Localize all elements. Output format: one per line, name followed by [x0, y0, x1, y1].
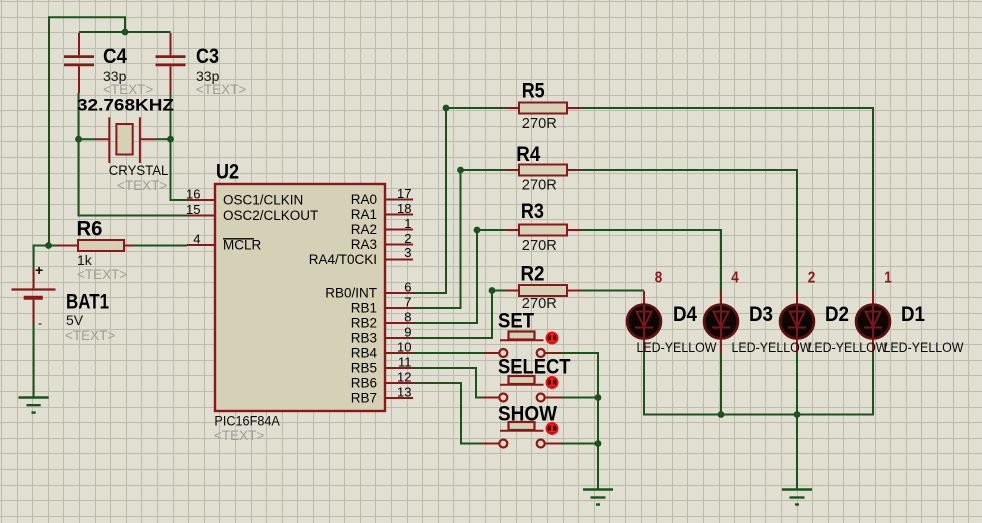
- svg-text:9: 9: [404, 325, 411, 340]
- pin 2 RA3 stub: [385, 244, 413, 246]
- pin 11 RB5 stub: [385, 367, 413, 369]
- svg-text:RA0: RA0: [351, 192, 377, 207]
- wire RB6 to SHOW button: [413, 383, 483, 444]
- node rail/SHOW: [595, 440, 602, 447]
- node crystal right: [167, 136, 174, 143]
- node battery/R6 junction: [45, 242, 52, 249]
- svg-text:1: 1: [884, 270, 892, 287]
- svg-text:RA2: RA2: [351, 222, 377, 237]
- svg-text:PIC16F84A: PIC16F84A: [214, 414, 280, 429]
- svg-text:RB0/INT: RB0/INT: [325, 286, 377, 301]
- wire SHOW right to rail: [561, 443, 598, 445]
- node bus/D2: [794, 411, 801, 418]
- pin 18 RA1 stub: [385, 214, 413, 216]
- resistor R2: [506, 285, 581, 296]
- pin 9 RB3 stub: [385, 337, 413, 339]
- svg-text:-: -: [38, 316, 42, 330]
- svg-text:7: 7: [404, 295, 411, 310]
- pin 1 RA2 stub: [385, 229, 413, 231]
- pin 15 OSC2 stub: [187, 215, 215, 217]
- LED D1: [856, 291, 890, 353]
- svg-text:270R: 270R: [522, 177, 557, 194]
- svg-text:D1: D1: [901, 303, 925, 326]
- wire C4 column down to OSC2 pin: [79, 93, 188, 216]
- svg-text:<TEXT>: <TEXT>: [65, 328, 115, 343]
- wire C3 column down to OSC1 pin: [171, 93, 188, 200]
- svg-text:R4: R4: [516, 143, 540, 166]
- svg-text:LED-YELLOW: LED-YELLOW: [637, 340, 717, 355]
- pin 17 RA0 stub: [385, 199, 413, 201]
- svg-text:<TEXT>: <TEXT>: [77, 267, 127, 282]
- svg-text:R6: R6: [77, 218, 103, 241]
- svg-text:C3: C3: [196, 45, 219, 68]
- pin 3 RA4 stub: [385, 259, 413, 261]
- node tee above caps: [122, 29, 129, 36]
- wire RB5 to SELECT button: [413, 368, 483, 398]
- wire SELECT right to rail: [561, 397, 598, 399]
- svg-text:OSC1/CLKIN: OSC1/CLKIN: [223, 193, 303, 208]
- svg-text:RA3: RA3: [351, 237, 377, 252]
- svg-text:8: 8: [404, 310, 411, 325]
- wire R4 to D2 column: [581, 170, 797, 291]
- svg-text:12: 12: [397, 370, 411, 385]
- wire battery to R6 node: [34, 246, 49, 269]
- resistor R5: [506, 103, 581, 114]
- wire RB0 to R5: [413, 108, 506, 293]
- LED cathode bus: [644, 353, 873, 415]
- svg-text:16: 16: [186, 186, 200, 201]
- svg-text:D2: D2: [825, 303, 849, 326]
- svg-text:U2: U2: [216, 161, 239, 184]
- svg-text:<TEXT>: <TEXT>: [214, 428, 264, 443]
- LED D2: [780, 291, 814, 353]
- svg-text:OSC2/CLKOUT: OSC2/CLKOUT: [223, 208, 318, 223]
- wire RB3 to R2: [413, 291, 506, 339]
- pin 12 RB6 stub: [385, 382, 413, 384]
- pin 10 RB4 stub: [385, 352, 413, 354]
- wire crystal left lead stub: [79, 138, 96, 140]
- ground (battery): [19, 398, 49, 413]
- svg-text:18: 18: [397, 201, 411, 216]
- svg-text:2: 2: [404, 231, 411, 246]
- svg-text:RB1: RB1: [351, 301, 377, 316]
- svg-text:RB7: RB7: [351, 391, 377, 406]
- svg-text:13: 13: [397, 385, 411, 400]
- svg-text:R5: R5: [522, 80, 545, 103]
- svg-text:2: 2: [808, 270, 816, 287]
- svg-text:11: 11: [398, 355, 412, 370]
- svg-text:10: 10: [397, 340, 411, 355]
- svg-text:MCLR: MCLR: [223, 238, 262, 253]
- wire RB1 to R4: [413, 170, 506, 308]
- capacitor C3: [156, 33, 186, 93]
- svg-text:3: 3: [404, 245, 411, 260]
- svg-text:SHOW: SHOW: [498, 403, 557, 426]
- pin 8 RB2 stub: [385, 322, 413, 324]
- node rail/SELECT: [595, 394, 602, 401]
- wire RB2 to R3: [413, 230, 506, 323]
- svg-text:RB3: RB3: [351, 331, 377, 346]
- LED D4: [627, 291, 661, 353]
- wire D2 cathode drop to ground: [796, 353, 798, 490]
- svg-text:1k: 1k: [77, 252, 93, 268]
- svg-text:RA1: RA1: [351, 207, 377, 222]
- svg-text:D3: D3: [749, 303, 773, 326]
- wire D3 cathode drop: [720, 353, 722, 415]
- LED D3: [704, 291, 738, 353]
- svg-text:270R: 270R: [522, 115, 557, 132]
- svg-text:5V: 5V: [66, 312, 84, 328]
- wire SET right to ground rail: [561, 353, 598, 490]
- svg-text:SELECT: SELECT: [498, 356, 571, 379]
- svg-text:4: 4: [193, 231, 200, 246]
- ground (buttons): [583, 490, 613, 505]
- svg-text:<TEXT>: <TEXT>: [196, 82, 246, 97]
- wire R6 row segments: [49, 245, 188, 247]
- pin 16 OSC1 stub: [187, 199, 215, 201]
- wire R5 to D1 column: [581, 108, 873, 291]
- node RB1/R4: [457, 167, 464, 174]
- node bus/D3: [718, 411, 725, 418]
- button SELECT: [483, 376, 562, 402]
- node RB2/R3: [474, 227, 481, 234]
- svg-text:4: 4: [731, 270, 739, 287]
- battery BAT1: [12, 262, 56, 330]
- pin 6 RB0 stub: [385, 292, 413, 294]
- svg-text:17: 17: [397, 186, 411, 201]
- svg-text:R2: R2: [521, 263, 545, 286]
- wire R2 to D4 column: [581, 290, 644, 292]
- node RB3/R2: [489, 287, 496, 294]
- pin 4 MCLR stub: [187, 244, 215, 246]
- resistor R3: [506, 225, 581, 236]
- capacitor C4: [64, 33, 94, 93]
- button SHOW: [483, 422, 562, 448]
- svg-text:RB2: RB2: [351, 316, 377, 331]
- svg-text:CRYSTAL: CRYSTAL: [109, 163, 169, 178]
- wire left rail from battery node up and over to oscillator tee: [49, 17, 125, 245]
- button SET: [484, 332, 562, 358]
- svg-text:RB5: RB5: [351, 361, 377, 376]
- resistor R4: [506, 165, 581, 176]
- svg-text:RA4/T0CKI: RA4/T0CKI: [309, 252, 377, 267]
- svg-text:8: 8: [655, 270, 663, 287]
- svg-text:BAT1: BAT1: [66, 291, 109, 314]
- svg-text:270R: 270R: [522, 237, 557, 254]
- crystal X1: [95, 117, 155, 163]
- ground (LED bus): [782, 490, 812, 505]
- wire battery negative to ground: [33, 324, 35, 398]
- svg-text:32.768KHZ: 32.768KHZ: [77, 96, 174, 115]
- svg-text:LED-YELLOW: LED-YELLOW: [808, 340, 888, 355]
- pin 13 RB7 stub: [385, 397, 413, 399]
- svg-text:R3: R3: [521, 200, 544, 223]
- svg-text:15: 15: [186, 202, 200, 217]
- svg-text:SET: SET: [498, 310, 534, 333]
- resistor R6: [57, 240, 133, 251]
- svg-text:C4: C4: [103, 45, 127, 68]
- op U2 PIC16F84A chip body: [215, 184, 385, 411]
- node crystal left: [75, 136, 82, 143]
- wire crystal right lead stub: [155, 138, 171, 140]
- wire R3 to D3 column: [581, 230, 721, 291]
- wire RB4 to SET button: [413, 352, 484, 354]
- node RB0/R5: [443, 105, 450, 112]
- svg-text:+: +: [35, 262, 43, 278]
- svg-text:RB6: RB6: [351, 376, 377, 391]
- pin 7 RB1 stub: [385, 307, 413, 309]
- svg-text:LED-YELLOW: LED-YELLOW: [884, 340, 964, 355]
- svg-text:RB4: RB4: [351, 346, 378, 361]
- svg-text:D4: D4: [673, 303, 697, 326]
- svg-text:1: 1: [404, 216, 411, 231]
- svg-text:<TEXT>: <TEXT>: [117, 178, 167, 193]
- svg-text:LED-YELLOW: LED-YELLOW: [732, 340, 812, 355]
- svg-text:6: 6: [404, 280, 411, 295]
- wire oscillator top run C4 to C3: [79, 31, 171, 33]
